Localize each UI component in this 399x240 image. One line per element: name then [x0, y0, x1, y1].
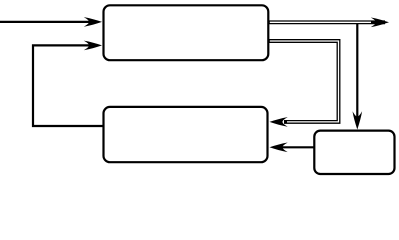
- wire: output double line (top right, to edge arrow): [268, 18, 390, 28]
- block: lower left box: [104, 107, 268, 162]
- wire: arrow from small box to lower box: [270, 143, 315, 153]
- wire: arrowhead down into small box: [353, 111, 363, 129]
- wire: double feedback line from top box right side down into lower box: [268, 41, 339, 127]
- block: top box: [104, 5, 269, 60]
- wire: vertical branch line to small box (drawn under the double line): [356, 22, 358, 120]
- wire: feedback loop from lower box left side up to top box second input: [33, 41, 104, 126]
- wire: input arrow into controller (top-left horizontal): [0, 17, 102, 27]
- block: small right box: [314, 131, 394, 174]
